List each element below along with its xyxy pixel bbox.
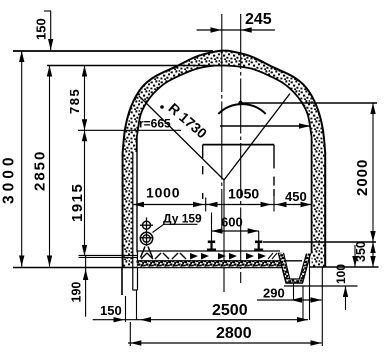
svg-text:150: 150 [100, 303, 122, 318]
spring level line left / r=665 underline [78, 129, 181, 131]
svg-text:150: 150 [34, 18, 49, 40]
dimension 2850 [32, 66, 53, 267]
label Du 159 with leader [153, 212, 203, 233]
dimension 290 [257, 286, 322, 303]
extension line at left wall inner face [136, 290, 138, 320]
tunnel lining ring (arch + side walls) filled with stipple [123, 51, 326, 268]
svg-text:1050: 1050 [228, 186, 259, 202]
svg-text:3000: 3000 [1, 154, 18, 204]
short solid axis under vertex [223, 180, 225, 292]
inner arch outline [137, 66, 312, 254]
dimension 350 [354, 241, 376, 267]
inner crown tangent line L2 [47, 65, 213, 67]
svg-text:1000: 1000 [146, 185, 180, 201]
rail top level line C [263, 241, 376, 243]
dimension 150 bottom + 2500 [93, 302, 308, 322]
extension line at ditch left [293, 283, 295, 300]
pipe symbol Du159: small circle with stem [140, 218, 154, 258]
radius line R1730 to lower-left [139, 96, 224, 180]
dimension 245 top [197, 11, 275, 33]
svg-text:1915: 1915 [69, 183, 86, 222]
svg-text:2800: 2800 [216, 325, 252, 342]
top tangent line L1 [13, 50, 213, 52]
center dot of arch radius [238, 101, 242, 105]
svg-text:r=665: r=665 [139, 117, 171, 131]
left wall foundation bottom [133, 289, 138, 291]
svg-text:2500: 2500 [212, 302, 248, 319]
dimension 600 [212, 213, 259, 244]
horizontal line through arch center to right [241, 102, 378, 104]
svg-text:450: 450 [285, 189, 307, 204]
svg-text:2850: 2850 [32, 150, 49, 191]
left wall inner channel line [132, 152, 134, 290]
dimension 190 [70, 256, 89, 317]
track centerline (dash-dot) [221, 14, 223, 232]
svg-text:245: 245 [245, 11, 272, 28]
left wall inner face below floor [137, 251, 139, 290]
extension line at right wall outer face [321, 268, 323, 347]
dimension 100 [334, 245, 358, 310]
slab bottom line B [13, 267, 287, 269]
dimension row 1000 / 1050 / 450 [133, 185, 312, 212]
svg-text:2000: 2000 [354, 159, 371, 196]
slab stipple band [138, 262, 285, 268]
svg-text:190: 190 [70, 282, 84, 303]
drainage ditch [278, 253, 357, 286]
dimension 2800 [128, 325, 322, 346]
dimension 150 top [34, 11, 54, 50]
svg-text:785: 785 [67, 88, 82, 114]
svg-text:290: 290 [263, 286, 285, 301]
radius line to upper-right [224, 94, 290, 181]
dimension 1915 [69, 130, 87, 256]
extension line for 2800 left end [129, 322, 131, 346]
extension line at ditch right [302, 286, 304, 320]
svg-text:100: 100 [334, 264, 348, 284]
dot on radius line [160, 105, 164, 109]
rails [207, 241, 263, 251]
left wall inner channel (white gap) [133, 152, 136, 289]
floor top extension line left [79, 254, 138, 256]
extension line at right wall inner face [309, 255, 311, 320]
right side dimension 2000 [354, 103, 376, 242]
ballast band with hatch [138, 251, 303, 261]
clearance envelope (dashed) [203, 145, 274, 199]
dimension 3000 [1, 51, 25, 267]
left wall outer face extension to footing [121, 268, 123, 296]
small arc under center dot [218, 104, 265, 114]
svg-text:Ду 159: Ду 159 [163, 212, 202, 226]
outer arch outline [123, 51, 326, 268]
dimension 785 [67, 66, 87, 131]
section axis line (dash-dot) right of track CL [240, 14, 242, 283]
horizontal radius arrow to right wall [220, 123, 310, 128]
extension line at left wall outer face [125, 296, 127, 322]
